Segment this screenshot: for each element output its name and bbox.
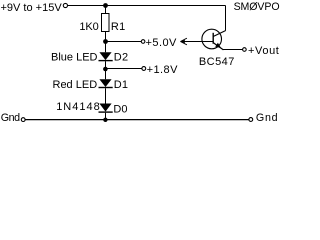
diode D2 cathode bar	[99, 60, 113, 61]
terminal Gnd right	[249, 118, 253, 122]
wire top rail	[68, 5, 226, 7]
svg-text:Gnd: Gnd	[256, 112, 278, 124]
junction dot top of R1	[103, 3, 108, 8]
resistor R1 body	[102, 14, 110, 32]
svg-text:Red LED: Red LED	[53, 79, 98, 91]
svg-text:D0: D0	[113, 104, 127, 116]
transistor Q1 circle	[202, 29, 222, 49]
wire D2 cathode to node	[105, 61, 107, 69]
terminal +9V	[63, 3, 67, 7]
wire R1 top lead	[105, 6, 107, 14]
wire emitter to +Vout	[223, 49, 243, 51]
diode D1 cathode bar	[99, 87, 113, 88]
svg-text:SMØVPO: SMØVPO	[234, 1, 280, 13]
wire D0 cathode to ground rail	[105, 113, 107, 120]
svg-text:Blue LED: Blue LED	[51, 51, 98, 63]
emitter arrowhead	[215, 43, 221, 48]
wire node to +1.8V terminal	[106, 68, 142, 70]
junction dot ground node	[103, 118, 107, 122]
svg-text:1K0: 1K0	[79, 21, 98, 33]
terminal +5.0V	[141, 40, 145, 44]
transistor emitter stroke	[213, 43, 223, 50]
svg-text:D2: D2	[114, 51, 129, 63]
svg-text:R1: R1	[111, 21, 126, 33]
wire collector drop	[225, 6, 227, 31]
terminal +1.8V	[142, 67, 146, 71]
svg-text:Gnd: Gnd	[1, 112, 20, 124]
junction dot node +5.0V	[103, 39, 108, 44]
wire R1 bottom lead	[105, 32, 107, 42]
wire node to +5.0V terminal	[106, 41, 142, 43]
terminal +Vout	[243, 48, 247, 52]
transistor base bar	[212, 33, 214, 44]
wire base lead	[181, 41, 214, 43]
diode D0 cathode bar	[99, 111, 113, 112]
diode D0 triangle (1N4148)	[99, 104, 111, 112]
wire D1 cathode to D0 anode	[105, 88, 107, 103]
junction dot node +1.8V	[103, 67, 108, 72]
svg-text:+9V to +15V: +9V to +15V	[1, 2, 63, 14]
svg-text:1N4148: 1N4148	[56, 101, 101, 113]
svg-text:D1: D1	[114, 79, 129, 91]
transistor collector stroke	[213, 31, 225, 37]
wire node to D1 anode	[105, 69, 107, 79]
wire node to D2 anode	[105, 42, 107, 53]
diode D1 triangle (red LED)	[99, 79, 111, 87]
svg-text:+1.8V: +1.8V	[147, 64, 179, 76]
svg-text:+Vout: +Vout	[248, 45, 279, 57]
svg-text:+5.0V: +5.0V	[146, 37, 178, 49]
diode D2 triangle (blue LED)	[99, 52, 111, 60]
arrowhead pointing to +5.0V	[180, 40, 185, 44]
wire ground rail	[25, 119, 249, 121]
svg-text:BC547: BC547	[199, 56, 235, 68]
terminal Gnd left	[21, 118, 25, 122]
